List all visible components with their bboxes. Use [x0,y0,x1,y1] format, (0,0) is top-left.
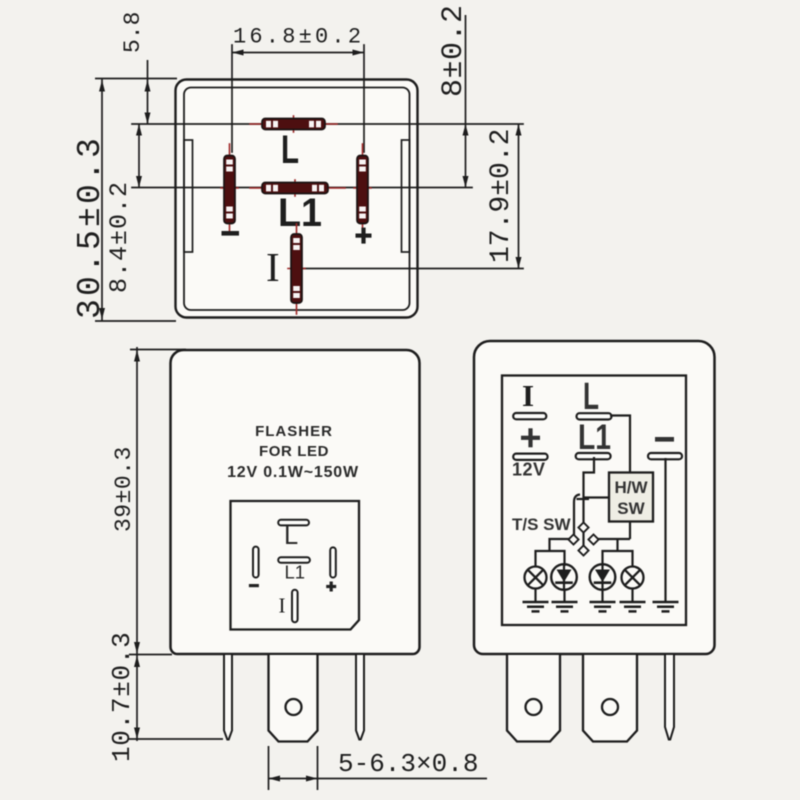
svg-text:FLASHER: FLASHER [255,423,333,440]
pin L (terminal slot, top view) [250,116,337,132]
pin I (terminal slot, top view) [288,224,305,314]
center wide blade pin (front view) [269,655,318,742]
lamp 1 (indicator) [525,567,547,589]
label minus (front face) [249,584,259,587]
relay front view case outline [171,350,420,654]
label plus (front face) [326,582,336,592]
svg-text:L: L [281,128,299,172]
ground symbol minus [653,602,679,611]
svg-text:8.4±0.2: 8.4±0.2 [105,181,134,293]
terminal plate plus [513,454,547,460]
needle pin (schematic view) [665,655,674,740]
dimension 17.9±0.2 (pin L to pin I, right side) [486,124,522,269]
svg-text:5-6.3×0.8: 5-6.3×0.8 [338,749,478,779]
label plus terminal [521,428,540,447]
svg-text:10.7±0.3: 10.7±0.3 [107,632,137,762]
dimension 30.5±0.3 (case width) [72,79,177,322]
LED 3 [590,564,616,590]
ground lead lamp 1 [534,589,536,603]
keyway rib on right inner wall [402,140,410,252]
switch contact diamond right [588,534,598,544]
pin plus slot (front face) [330,547,336,577]
right lamp pair bus [603,551,633,566]
dimension 8.4±0.2 (pin L row to +/- row) [105,124,142,293]
extension line to pin plus from 16.8 dim [363,45,365,152]
hole in right blade [602,699,618,715]
svg-text:16.8±0.2: 16.8±0.2 [233,25,364,50]
terminal plate L [577,413,612,419]
centerline through pin L extended to right dims [132,123,523,125]
dimension 16.8±0.2 (pin spacing, top) [232,25,364,56]
left blade pin (front view) [224,655,232,740]
H/W SW box [609,473,653,522]
svg-text:L1: L1 [285,561,306,582]
svg-text:30.5±0.3: 30.5±0.3 [72,135,109,319]
terminal plate minus [648,453,682,459]
ground symbol 4 [620,602,646,611]
svg-text:12V 0.1W~150W: 12V 0.1W~150W [227,464,359,481]
ground lead LED 2 [563,589,565,602]
dimension 39±0.3 (case height) [111,347,186,741]
pin plus (terminal slot, top view) [354,144,371,234]
svg-text:39±0.3: 39±0.3 [111,446,137,532]
wire left lamps feed [550,539,571,551]
label minus (top view) [222,231,240,236]
svg-text:5.8: 5.8 [120,12,146,53]
ground symbol 3 [590,602,616,611]
svg-text:17.9±0.2: 17.9±0.2 [486,129,517,263]
svg-text:T/S SW: T/S SW [512,515,572,534]
ground lead lamp 4 [631,589,633,603]
wire L to H/W SW top [610,416,630,473]
wire switch to H/W SW left [585,496,610,498]
pin L slot (front face) [278,520,309,526]
svg-text:H/W: H/W [614,478,648,497]
hole in center blade [286,699,302,715]
svg-text:SW: SW [617,499,645,518]
pin L1 slot (front face) [278,557,310,563]
ground lead LED 3 [601,589,603,602]
dimension 5-6.3×0.8 (blade size) [269,746,488,790]
switch contact diamond top [578,522,588,532]
svg-text:I: I [522,378,534,413]
pin layout square on face [231,501,360,630]
relay schematic view case outline [474,341,715,654]
dimension 8±0.2 (pin L to pin L1, right side) [437,4,471,187]
dimension 10.7±0.3 (pin length) [107,632,223,762]
lamp 4 (indicator) [622,567,644,589]
ground symbol 2 [552,602,578,611]
svg-text:L1: L1 [578,418,611,457]
svg-text:L1: L1 [278,191,322,235]
schematic frame [502,376,686,626]
centerline through pins - / L1 / + [132,187,472,189]
svg-text:12V: 12V [512,460,546,480]
relay top view outer case outline [176,80,418,318]
ground symbol 1 [523,602,549,611]
wire H/W SW bottom down [629,522,631,540]
wire right lamps feed [597,538,630,540]
switch contact diamond left [568,534,578,544]
switch lever (T/S SW) [574,495,580,537]
right blade pin (front view) [356,655,364,740]
switch centre post [582,526,584,549]
label plus (top view) [356,228,372,244]
switch contact tick [577,498,590,500]
left lamp pair bus [536,551,565,566]
hole in left blade [526,699,542,715]
svg-text:L: L [284,522,298,550]
pin minus slot (front face) [253,547,259,578]
extension line to pin minus from 16.8 dim [231,45,233,152]
pin L1 (terminal slot, top view) [250,180,345,196]
wire minus terminal to ground [664,458,666,602]
dimension 5.8 (case edge to pin L) [120,12,151,124]
centerline through pin I extended to right dims [303,268,523,270]
right wide blade pin (schematic view) [583,655,637,742]
terminal plate I [513,413,546,419]
wire L1 down to switch common [584,457,595,524]
svg-text:I: I [266,244,280,290]
left wide blade pin (schematic view) [507,655,560,742]
switch contact diamond bottom [578,545,588,555]
pin minus (terminal slot, top view) [221,144,238,234]
LED 2 [551,564,577,590]
svg-text:I: I [279,593,286,617]
relay top view inner case line [184,88,410,311]
pin I slot (front face) [292,590,298,623]
terminal plate L1 [576,453,611,459]
svg-text:L: L [583,376,599,418]
label minus terminal [655,437,674,442]
keyway rib on left inner wall [184,140,193,252]
svg-text:FOR LED: FOR LED [259,443,329,460]
